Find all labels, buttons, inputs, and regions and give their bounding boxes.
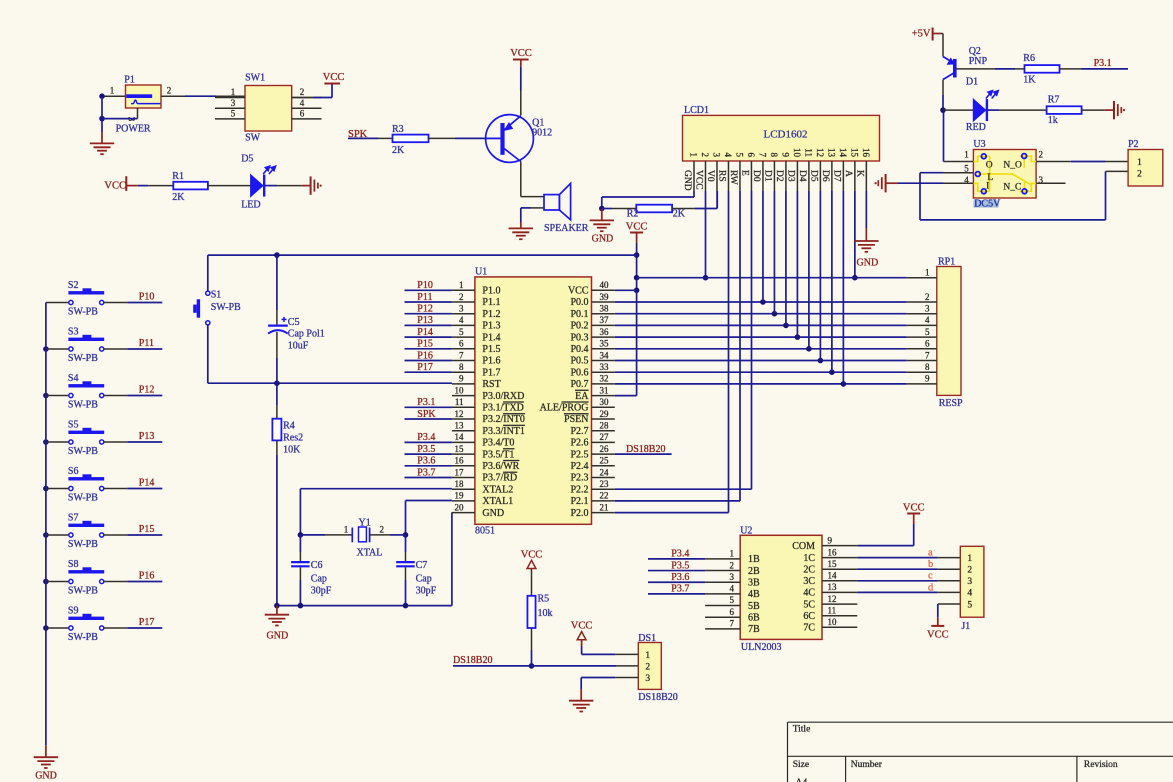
svg-text:2: 2	[925, 292, 930, 302]
svg-text:D6: D6	[820, 170, 830, 182]
svg-text:34: 34	[600, 350, 610, 360]
svg-text:4C: 4C	[803, 588, 815, 599]
svg-text:POWER: POWER	[116, 123, 151, 134]
svg-text:S6: S6	[68, 466, 79, 477]
svg-text:14: 14	[838, 148, 848, 158]
svg-text:RST: RST	[482, 379, 500, 390]
svg-text:P0.2: P0.2	[570, 321, 588, 332]
svg-text:5: 5	[925, 327, 930, 337]
svg-text:P3.7: P3.7	[417, 467, 435, 478]
svg-text:15: 15	[849, 148, 859, 158]
svg-text:LCD1: LCD1	[684, 105, 709, 116]
svg-text:RESP: RESP	[939, 398, 963, 409]
svg-text:P2.1: P2.1	[570, 496, 588, 507]
svg-text:K: K	[855, 170, 865, 177]
svg-text:RS: RS	[717, 170, 727, 182]
svg-text:P2.3: P2.3	[570, 473, 588, 484]
svg-text:5: 5	[459, 327, 464, 337]
svg-text:D1: D1	[966, 77, 978, 88]
svg-text:3C: 3C	[803, 576, 815, 587]
svg-text:2: 2	[379, 525, 384, 535]
svg-text:P11: P11	[139, 338, 154, 349]
svg-text:Res2: Res2	[283, 432, 303, 443]
svg-text:11: 11	[455, 397, 464, 407]
svg-text:C5: C5	[288, 317, 300, 328]
svg-text:R4: R4	[283, 421, 295, 432]
svg-text:23: 23	[599, 479, 609, 489]
svg-text:SW-PB: SW-PB	[68, 399, 98, 410]
svg-text:8: 8	[925, 362, 930, 372]
svg-text:VCC: VCC	[323, 72, 345, 83]
svg-text:D2: D2	[774, 170, 784, 182]
svg-text:1: 1	[1137, 158, 1142, 168]
svg-text:16: 16	[454, 456, 464, 466]
svg-text:21: 21	[599, 502, 608, 512]
svg-text:P1.2: P1.2	[482, 309, 500, 320]
svg-text:Cap: Cap	[311, 573, 327, 584]
svg-text:31: 31	[600, 385, 609, 395]
svg-text:4: 4	[925, 315, 930, 325]
svg-text:RP1: RP1	[938, 256, 955, 267]
svg-text:ULN2003: ULN2003	[741, 642, 782, 653]
svg-text:1: 1	[729, 549, 734, 559]
svg-text:XTAL2: XTAL2	[482, 484, 513, 495]
svg-text:SW-PB: SW-PB	[211, 302, 241, 313]
svg-text:J1: J1	[961, 621, 970, 632]
svg-text:1k: 1k	[1048, 115, 1058, 126]
svg-text:4B: 4B	[748, 589, 760, 600]
svg-text:5B: 5B	[748, 601, 760, 612]
svg-text:6: 6	[459, 339, 464, 349]
svg-text:4: 4	[729, 584, 734, 594]
svg-text:2K: 2K	[673, 209, 686, 220]
svg-text:Y1: Y1	[358, 517, 370, 528]
svg-text:2: 2	[459, 292, 464, 302]
svg-text:P2.5: P2.5	[570, 449, 588, 460]
svg-text:P2.6: P2.6	[570, 438, 588, 449]
svg-text:SW-PB: SW-PB	[68, 446, 98, 457]
svg-text:12: 12	[454, 409, 463, 419]
svg-text:38: 38	[600, 304, 610, 314]
svg-text:GND: GND	[592, 233, 614, 244]
svg-text:GND: GND	[266, 630, 288, 641]
svg-text:10K: 10K	[283, 445, 301, 456]
svg-text:3: 3	[711, 153, 721, 158]
svg-text:DS18B20: DS18B20	[626, 444, 665, 455]
svg-text:2: 2	[700, 153, 710, 158]
svg-text:VCC: VCC	[104, 181, 126, 192]
svg-text:14: 14	[454, 432, 464, 442]
svg-text:SW-PB: SW-PB	[68, 632, 98, 643]
svg-text:+5V: +5V	[912, 29, 931, 40]
svg-text:5: 5	[964, 163, 969, 173]
svg-text:3: 3	[729, 572, 734, 582]
svg-text:P2.0: P2.0	[570, 508, 588, 519]
svg-text:1: 1	[925, 267, 930, 277]
svg-text:36: 36	[600, 327, 610, 337]
svg-text:P10: P10	[417, 280, 433, 291]
svg-text:P1.4: P1.4	[482, 332, 500, 343]
svg-text:N_O: N_O	[1003, 160, 1022, 170]
svg-text:10k: 10k	[537, 608, 552, 619]
svg-text:R1: R1	[172, 171, 184, 182]
svg-text:12: 12	[815, 148, 825, 157]
svg-text:P1.3: P1.3	[482, 321, 500, 332]
svg-text:16: 16	[861, 148, 871, 158]
svg-text:2K: 2K	[392, 145, 405, 156]
svg-text:P2.4: P2.4	[570, 461, 588, 472]
svg-text:3: 3	[967, 577, 972, 587]
svg-text:P0.5: P0.5	[570, 356, 588, 367]
svg-text:10: 10	[455, 385, 465, 395]
svg-text:7B: 7B	[748, 624, 760, 635]
svg-text:9: 9	[459, 374, 464, 384]
svg-text:1: 1	[459, 280, 464, 290]
svg-text:E: E	[740, 170, 750, 176]
svg-text:P0.0: P0.0	[570, 297, 588, 308]
svg-text:3: 3	[645, 674, 650, 684]
svg-text:P3.2/INT0: P3.2/INT0	[482, 414, 525, 425]
svg-text:6B: 6B	[748, 613, 760, 624]
svg-text:D1: D1	[763, 170, 773, 182]
svg-text:R5: R5	[537, 593, 549, 604]
svg-text:GND: GND	[35, 770, 57, 781]
svg-text:2: 2	[729, 560, 734, 570]
svg-text:P1.1: P1.1	[482, 297, 500, 308]
svg-text:2C: 2C	[803, 565, 815, 576]
svg-text:16: 16	[827, 547, 837, 557]
svg-text:P1: P1	[124, 75, 135, 86]
svg-text:RW: RW	[728, 170, 738, 185]
svg-text:GND: GND	[682, 170, 692, 191]
svg-text:U1: U1	[475, 267, 487, 278]
svg-text:19: 19	[454, 491, 464, 501]
svg-text:4: 4	[459, 315, 464, 325]
svg-text:P12: P12	[417, 303, 433, 314]
svg-text:S1: S1	[211, 289, 222, 300]
svg-text:22: 22	[599, 491, 608, 501]
svg-text:1: 1	[110, 85, 115, 95]
svg-text:C7: C7	[416, 560, 428, 571]
svg-text:Size: Size	[793, 760, 809, 770]
svg-text:SW-PB: SW-PB	[68, 353, 98, 364]
svg-text:S5: S5	[68, 420, 79, 431]
svg-text:37: 37	[600, 315, 610, 325]
svg-text:D5: D5	[809, 170, 819, 182]
svg-text:SW: SW	[245, 132, 261, 143]
svg-text:6: 6	[729, 607, 734, 617]
svg-text:2: 2	[645, 662, 650, 672]
svg-text:P2.2: P2.2	[570, 484, 588, 495]
svg-text:P16: P16	[417, 350, 433, 361]
svg-text:5: 5	[967, 600, 972, 610]
svg-text:P1.5: P1.5	[482, 344, 500, 355]
svg-text:S3: S3	[68, 327, 79, 338]
svg-text:P3.4: P3.4	[417, 432, 435, 443]
svg-text:SW-PB: SW-PB	[68, 492, 98, 503]
svg-text:18: 18	[454, 479, 464, 489]
svg-text:6: 6	[300, 108, 305, 118]
svg-text:P3.1: P3.1	[1094, 58, 1112, 69]
svg-text:8051: 8051	[475, 525, 495, 536]
svg-text:R3: R3	[392, 124, 404, 135]
svg-text:P17: P17	[417, 362, 433, 373]
svg-text:2: 2	[300, 87, 305, 97]
svg-text:15: 15	[827, 559, 837, 569]
svg-text:P3.7/RD: P3.7/RD	[482, 473, 517, 484]
svg-text:13: 13	[826, 148, 836, 158]
svg-text:S9: S9	[68, 606, 79, 617]
svg-text:17: 17	[454, 467, 464, 477]
svg-text:11: 11	[803, 148, 813, 157]
svg-text:6: 6	[925, 339, 930, 349]
svg-text:30pF: 30pF	[311, 586, 332, 597]
svg-text:14: 14	[827, 571, 837, 581]
svg-text:15: 15	[454, 444, 464, 454]
svg-text:3: 3	[1039, 175, 1044, 185]
svg-text:S2: S2	[68, 280, 79, 291]
svg-text:RED: RED	[966, 122, 986, 133]
svg-text:R2: R2	[627, 209, 639, 220]
svg-text:33: 33	[600, 362, 610, 372]
svg-text:5: 5	[231, 108, 236, 118]
svg-text:PNP: PNP	[969, 56, 988, 67]
svg-text:A: A	[843, 170, 853, 177]
svg-text:ALE/PROG: ALE/PROG	[540, 402, 589, 413]
svg-text:3: 3	[925, 304, 930, 314]
svg-text:Title: Title	[793, 725, 811, 735]
svg-text:SW-PB: SW-PB	[68, 306, 98, 317]
svg-text:7: 7	[925, 350, 930, 360]
svg-text:4: 4	[300, 98, 305, 108]
svg-text:P15: P15	[417, 339, 433, 350]
svg-text:LCD1602: LCD1602	[764, 129, 808, 141]
svg-text:A4: A4	[795, 778, 807, 782]
svg-text:SPK: SPK	[417, 409, 436, 420]
svg-text:P3.4: P3.4	[671, 549, 689, 560]
svg-text:U3: U3	[973, 139, 985, 150]
svg-text:b: b	[928, 559, 933, 570]
svg-text:D3: D3	[786, 170, 796, 182]
svg-text:P3.6/WR: P3.6/WR	[482, 461, 519, 472]
svg-text:VCC: VCC	[927, 629, 949, 640]
svg-text:P0.6: P0.6	[570, 367, 588, 378]
svg-text:SW1: SW1	[245, 72, 265, 83]
svg-text:P3.3/INT1: P3.3/INT1	[482, 426, 525, 437]
svg-text:c: c	[928, 571, 933, 582]
svg-text:3: 3	[459, 303, 464, 313]
svg-text:P11: P11	[417, 292, 432, 303]
svg-text:VCC: VCC	[903, 503, 925, 514]
svg-text:S7: S7	[68, 513, 79, 524]
svg-text:9: 9	[780, 153, 790, 158]
svg-text:Number: Number	[851, 760, 883, 770]
svg-text:SPEAKER: SPEAKER	[544, 223, 589, 234]
svg-text:2: 2	[1039, 150, 1044, 160]
svg-text:Q2: Q2	[969, 46, 981, 57]
svg-text:3: 3	[231, 98, 236, 108]
svg-text:R7: R7	[1048, 95, 1060, 106]
svg-text:1: 1	[231, 87, 236, 97]
svg-text:a: a	[928, 548, 933, 559]
svg-text:P3.5: P3.5	[417, 444, 435, 455]
svg-text:9: 9	[827, 535, 832, 545]
svg-text:9: 9	[925, 374, 930, 384]
svg-text:R6: R6	[1023, 53, 1035, 64]
svg-text:P3.6: P3.6	[417, 456, 435, 467]
svg-text:GND: GND	[857, 257, 879, 268]
svg-text:XTAL: XTAL	[356, 547, 382, 558]
svg-text:8: 8	[769, 153, 779, 158]
svg-text:P0.7: P0.7	[570, 379, 588, 390]
svg-text:P0.4: P0.4	[570, 344, 588, 355]
svg-text:P14: P14	[139, 477, 155, 488]
svg-text:1: 1	[344, 525, 349, 535]
svg-text:VCC: VCC	[626, 222, 648, 233]
svg-text:P3.7: P3.7	[671, 584, 689, 595]
svg-text:VCC: VCC	[568, 285, 589, 296]
svg-text:VCC: VCC	[694, 170, 704, 190]
svg-text:6C: 6C	[803, 611, 815, 622]
svg-text:P3.0/RXD: P3.0/RXD	[482, 391, 524, 402]
svg-text:39: 39	[600, 292, 610, 302]
svg-text:D5: D5	[241, 153, 253, 164]
svg-text:P1.7: P1.7	[482, 367, 500, 378]
svg-text:5: 5	[734, 153, 744, 158]
svg-text:SW-PB: SW-PB	[68, 539, 98, 550]
svg-text:P16: P16	[139, 570, 155, 581]
svg-text:Revision: Revision	[1084, 760, 1118, 770]
svg-text:9012: 9012	[532, 128, 552, 139]
svg-text:1: 1	[967, 554, 972, 564]
svg-text:40: 40	[600, 280, 610, 290]
svg-text:2B: 2B	[748, 566, 760, 577]
svg-text:30pF: 30pF	[416, 586, 437, 597]
svg-text:1: 1	[688, 153, 698, 158]
svg-text:1B: 1B	[748, 554, 760, 565]
svg-text:7: 7	[459, 350, 464, 360]
svg-text:13: 13	[454, 420, 464, 430]
svg-text:11: 11	[827, 605, 836, 615]
svg-text:P3.1/TXD: P3.1/TXD	[482, 402, 523, 413]
svg-text:7C: 7C	[803, 623, 815, 634]
svg-text:O: O	[986, 161, 993, 171]
svg-text:6: 6	[746, 153, 756, 158]
svg-text:29: 29	[599, 409, 609, 419]
svg-text:5: 5	[729, 595, 734, 605]
svg-text:20: 20	[454, 502, 464, 512]
svg-text:7: 7	[757, 153, 767, 158]
svg-text:DS18B20: DS18B20	[638, 692, 677, 703]
svg-text:P1.6: P1.6	[482, 356, 500, 367]
svg-text:1K: 1K	[1023, 75, 1036, 86]
svg-text:7: 7	[729, 619, 734, 629]
svg-text:28: 28	[599, 421, 609, 431]
svg-text:P2.7: P2.7	[570, 426, 588, 437]
svg-text:26: 26	[599, 444, 609, 454]
svg-text:DC5V: DC5V	[974, 199, 1001, 210]
svg-text:P3.6: P3.6	[671, 572, 689, 583]
svg-text:VCC: VCC	[510, 48, 532, 59]
svg-text:25: 25	[599, 456, 609, 466]
svg-text:S8: S8	[68, 559, 79, 570]
svg-text:P0.3: P0.3	[570, 332, 588, 343]
svg-text:P3.4/T0: P3.4/T0	[482, 438, 514, 449]
svg-text:P3.1: P3.1	[417, 397, 435, 408]
svg-text:EA: EA	[575, 391, 589, 402]
svg-text:N_C: N_C	[1003, 182, 1021, 192]
svg-text:P13: P13	[417, 315, 433, 326]
svg-text:12: 12	[827, 594, 836, 604]
svg-text:1: 1	[645, 651, 650, 661]
svg-text:P12: P12	[139, 384, 155, 395]
svg-text:P15: P15	[139, 524, 155, 535]
svg-text:P1.0: P1.0	[482, 285, 500, 296]
svg-text:SW-PB: SW-PB	[68, 585, 98, 596]
svg-text:2: 2	[967, 566, 972, 576]
svg-text:I: I	[986, 182, 989, 192]
svg-text:D4: D4	[797, 170, 807, 182]
svg-text:24: 24	[599, 467, 609, 477]
svg-text:1C: 1C	[803, 553, 815, 564]
svg-text:d: d	[928, 582, 934, 593]
svg-text:P17: P17	[139, 617, 155, 628]
svg-text:PSEN: PSEN	[564, 414, 588, 425]
svg-text:VCC: VCC	[571, 621, 593, 632]
svg-text:2: 2	[167, 85, 172, 95]
svg-text:S4: S4	[68, 373, 79, 384]
svg-text:27: 27	[599, 432, 609, 442]
svg-text:D0: D0	[751, 170, 761, 182]
svg-text:35: 35	[600, 339, 610, 349]
svg-text:13: 13	[827, 582, 837, 592]
svg-text:Cap: Cap	[416, 573, 432, 584]
svg-text:COM: COM	[792, 541, 815, 552]
svg-text:LED: LED	[241, 199, 260, 210]
svg-text:XTAL1: XTAL1	[482, 496, 513, 507]
svg-text:2K: 2K	[172, 192, 185, 203]
svg-text:32: 32	[600, 374, 609, 384]
svg-text:C6: C6	[311, 560, 323, 571]
svg-text:8: 8	[459, 362, 464, 372]
svg-text:P0.1: P0.1	[570, 309, 588, 320]
svg-text:4: 4	[723, 153, 733, 158]
svg-text:2: 2	[1137, 169, 1142, 179]
svg-text:VCC: VCC	[521, 549, 543, 560]
svg-text:P3.5/T1: P3.5/T1	[482, 449, 514, 460]
svg-text:4: 4	[964, 175, 969, 185]
svg-text:30: 30	[600, 397, 610, 407]
svg-text:5C: 5C	[803, 599, 815, 610]
svg-text:P10: P10	[139, 291, 155, 302]
svg-text:P13: P13	[139, 431, 155, 442]
svg-text:10uF: 10uF	[288, 341, 309, 352]
svg-text:10: 10	[827, 617, 837, 627]
svg-text:10: 10	[792, 148, 802, 158]
svg-text:GND: GND	[482, 508, 504, 519]
svg-text:3B: 3B	[748, 578, 760, 589]
svg-text:P14: P14	[417, 327, 433, 338]
svg-text:P3.5: P3.5	[671, 560, 689, 571]
svg-text:V0: V0	[705, 170, 715, 182]
svg-text:1: 1	[964, 150, 969, 160]
svg-text:DS18B20: DS18B20	[453, 655, 492, 666]
svg-text:4: 4	[967, 589, 972, 599]
svg-text:Cap Pol1: Cap Pol1	[288, 329, 325, 340]
svg-text:D7: D7	[832, 170, 842, 182]
svg-text:P2: P2	[1128, 139, 1139, 150]
